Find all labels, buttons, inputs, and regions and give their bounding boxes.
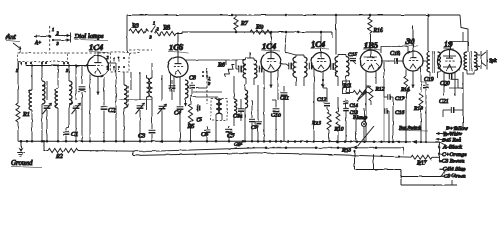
- wire x131 drop: [119, 72, 153, 100]
- tube V4 1C4: [310, 39, 331, 72]
- tube V5 1B5: [360, 40, 382, 72]
- wire R8 to screen bus: [176, 32, 182, 34]
- capacitor C4: [174, 77, 183, 141]
- capacitor C13: [343, 104, 358, 142]
- svg-text:C8: C8: [189, 76, 196, 82]
- resistor R15: [413, 68, 423, 142]
- wire C-minus line: [133, 151, 411, 158]
- svg-text:C17: C17: [395, 96, 405, 102]
- output transformer T5: [463, 32, 477, 75]
- svg-text:C2: C2: [108, 107, 115, 114]
- svg-text:C10: C10: [271, 113, 281, 119]
- speaker: [476, 50, 497, 70]
- capacitor C8-1 label: [234, 142, 243, 148]
- svg-text:3: 3: [66, 68, 68, 73]
- inductor L2: [42, 66, 45, 142]
- label R13 pointer: [341, 126, 374, 154]
- svg-text:1C4: 1C4: [89, 42, 103, 52]
- capacitor C5: [196, 104, 202, 123]
- svg-text:R1: R1: [22, 111, 30, 118]
- wire cable junction vertical: [438, 142, 440, 161]
- cable C+ Orange: [440, 152, 468, 158]
- switch wave band box: [16, 53, 69, 73]
- wire V3 pin drops: [264, 70, 278, 141]
- capacitor C7: [226, 126, 236, 141]
- wire v7 bottom drops: [444, 73, 455, 97]
- inductor L6 osc coil: [147, 63, 153, 128]
- wire screen grid bus: [182, 31, 332, 38]
- svg-text:3: 3: [107, 65, 109, 70]
- resistor R12: [357, 72, 385, 105]
- wire V1 left pin: [84, 66, 91, 143]
- resistor R6: [217, 60, 236, 92]
- svg-text:C20: C20: [440, 81, 450, 87]
- tube V7 19: [438, 39, 462, 74]
- svg-text:R12: R12: [375, 87, 385, 93]
- svg-text:R17: R17: [416, 161, 427, 167]
- resistor R13 diode load: [311, 109, 331, 142]
- svg-text:1: 1: [52, 27, 54, 32]
- svg-text:C11: C11: [280, 96, 289, 102]
- wire left vertical from bus to band switch: [126, 15, 128, 52]
- svg-text:3: 3: [150, 35, 152, 40]
- svg-text:R13: R13: [413, 106, 423, 112]
- wire V1 grid cap: [97, 52, 99, 56]
- ground symbol: [17, 140, 25, 156]
- resistor R16: [368, 15, 383, 50]
- wire B+ top bus: [127, 14, 460, 17]
- svg-text:C6: C6: [201, 131, 209, 138]
- svg-text:–C9 Green: –C9 Green: [440, 174, 466, 180]
- wire pot tail: [355, 108, 357, 142]
- capacitor C3: [138, 128, 155, 141]
- svg-text:Ground: Ground: [11, 159, 33, 167]
- label Dial lamps: [74, 33, 109, 41]
- wire drop x336: [335, 15, 337, 55]
- svg-text:3: 3: [57, 41, 59, 46]
- svg-text:C4: C4: [174, 110, 181, 117]
- resistor R7: [234, 15, 249, 32]
- resistor R17: [411, 155, 440, 166]
- svg-text:19: 19: [444, 39, 453, 49]
- svg-text:R13: R13: [341, 148, 351, 154]
- svg-text:A–Black: A–Black: [442, 145, 462, 151]
- svg-text:C3: C3: [138, 133, 145, 140]
- inductor L4: [69, 66, 72, 129]
- inductor L11 below T1: [244, 85, 248, 143]
- inductor L8: [183, 80, 188, 106]
- capacitor tuning gang 1: [43, 81, 52, 141]
- svg-text:C+Orange: C+Orange: [442, 152, 467, 158]
- svg-text:Spk: Spk: [489, 58, 497, 64]
- inductor L7 osc feedback: [169, 80, 176, 100]
- capacitor C21: [439, 99, 463, 117]
- svg-text:Dial lamps: Dial lamps: [74, 33, 105, 40]
- switch band set arm: [150, 21, 160, 40]
- capacitor C18: [381, 51, 404, 64]
- svg-text:1B5: 1B5: [364, 40, 379, 50]
- switch osc section contacts: [202, 68, 210, 104]
- wire V6 grid cap: [412, 26, 414, 51]
- svg-text:1C6: 1C6: [169, 42, 184, 52]
- wire V4 pins: [313, 69, 315, 142]
- switch section box V1 grid: [107, 52, 130, 72]
- capacitor C17: [384, 62, 405, 142]
- cable -C3 Brown: [438, 159, 465, 165]
- wire V2 pins down: [171, 75, 175, 93]
- svg-text:C15: C15: [348, 52, 358, 58]
- svg-text:1: 1: [153, 21, 155, 26]
- svg-text:30: 30: [405, 36, 415, 46]
- wire V7 grid feed: [451, 42, 469, 50]
- IF transformer T2: [282, 32, 315, 86]
- resistor R2: [43, 140, 78, 160]
- wire V1 plate drop: [109, 63, 117, 141]
- wire drop x428: [427, 15, 429, 51]
- cable B+45 Red: [436, 138, 461, 144]
- interstage transformer T4: [423, 51, 441, 78]
- label Ground: [11, 159, 42, 168]
- svg-text:R11: R11: [342, 83, 352, 89]
- svg-text:R7: R7: [240, 20, 249, 27]
- IF transformer T1: [236, 52, 263, 85]
- wire dashed gang links: [68, 50, 153, 53]
- inductor L5 RF choke: [124, 72, 128, 141]
- capacitor C11: [280, 86, 289, 142]
- svg-text:Ant: Ant: [5, 33, 17, 41]
- svg-text:C16: C16: [395, 110, 405, 116]
- wire V4 cathode: [321, 71, 324, 88]
- resistor R10: [334, 97, 344, 142]
- wire B+ bus right drop: [460, 15, 468, 32]
- svg-text:B45 Red: B45 Red: [442, 138, 461, 144]
- pilot lamp: [361, 108, 366, 142]
- svg-text:1C4: 1C4: [262, 41, 276, 51]
- capacitor C19: [421, 77, 434, 142]
- svg-text:C6a: C6a: [233, 114, 243, 120]
- svg-text:C12: C12: [317, 97, 327, 103]
- inductor L10 osc sec: [234, 92, 237, 126]
- capacitor C9: [251, 85, 261, 141]
- switch S1 A+ feed: [34, 26, 71, 51]
- capacitor C6a: [233, 99, 244, 121]
- svg-text:A+: A+: [34, 41, 41, 46]
- wire A-minus line: [78, 147, 404, 152]
- svg-text:P.lamp: P.lamp: [352, 115, 368, 121]
- cable -C4.5 Blue: [439, 166, 466, 177]
- wire V5 pins: [366, 71, 376, 142]
- capacitor C16: [384, 97, 405, 142]
- tube V2 1C6: [168, 42, 188, 77]
- cable B+ Yellow: [446, 122, 468, 132]
- svg-text:C5: C5: [196, 118, 202, 123]
- label pilot lamp: [352, 115, 368, 121]
- svg-text:R2: R2: [55, 153, 63, 160]
- wire input rail: [26, 64, 94, 66]
- svg-text:C18: C18: [390, 51, 400, 57]
- wire V3 cathode: [269, 72, 272, 88]
- svg-text:C7: C7: [227, 133, 235, 140]
- dashed osc box: [211, 99, 227, 121]
- capacitor C12: [317, 88, 330, 109]
- svg-text:R3: R3: [131, 23, 139, 30]
- svg-text:C8¹: C8¹: [234, 142, 243, 148]
- svg-text:R16: R16: [373, 28, 383, 34]
- resistor R11 volume pot: [342, 83, 369, 99]
- capacitor C15: [348, 52, 358, 64]
- tube V6 30: [403, 36, 423, 71]
- cable -C9 Green: [440, 174, 466, 186]
- wire plate shelf 1B5 to 30: [381, 47, 408, 54]
- wire lattice v 354: [353, 150, 355, 170]
- capacitor C2: [101, 77, 116, 141]
- antenna Ant: [5, 33, 21, 53]
- capacitor C8a: [249, 100, 255, 141]
- capacitor tuning gang 4: [158, 75, 167, 141]
- capacitor C8: [189, 76, 196, 98]
- svg-text:R6: R6: [217, 62, 226, 69]
- IF transformer T3: [330, 55, 349, 91]
- wire V3 grid cap: [270, 32, 272, 52]
- capacitor C14: [343, 99, 358, 109]
- svg-text:–C4½ Blue: –C4½ Blue: [439, 166, 466, 173]
- wire V1 cathode return: [96, 77, 99, 96]
- svg-text:–C3 Brown: –C3 Brown: [438, 159, 465, 165]
- svg-text:R9: R9: [255, 24, 263, 31]
- cable B- White: [436, 132, 463, 138]
- svg-text:R14: R14: [400, 87, 410, 93]
- svg-text:3: 3: [208, 81, 210, 86]
- wire step x404: [403, 148, 405, 155]
- capacitor tuning gang 3: [136, 72, 145, 141]
- cable A- Black: [442, 145, 462, 151]
- wire V2 plate to T1: [186, 59, 236, 61]
- svg-text:R13: R13: [311, 121, 321, 127]
- svg-text:R8: R8: [162, 24, 171, 31]
- capacitor tuning gang 2: [72, 66, 81, 142]
- wire ground bus: [18, 140, 447, 146]
- resistor R1: [16, 61, 30, 141]
- inductor L9 osc padder: [216, 97, 222, 141]
- svg-text:C1: C1: [71, 131, 78, 138]
- resistor R8: [155, 24, 176, 36]
- capacitor trimmer antenna: [78, 66, 86, 142]
- resistor R9: [250, 24, 272, 35]
- capacitor C6: [201, 126, 210, 141]
- wire V6 cathode: [411, 71, 414, 88]
- label Bat Switch: [399, 126, 428, 132]
- resistor R5: [187, 95, 195, 141]
- svg-text:R10: R10: [334, 127, 344, 133]
- wire v7 right return: [458, 72, 463, 128]
- svg-text:C21: C21: [439, 99, 449, 105]
- wire osc rails: [193, 88, 222, 97]
- svg-text:1C4: 1C4: [311, 39, 325, 49]
- resistor R14: [400, 70, 410, 142]
- svg-text:C14: C14: [350, 104, 359, 109]
- capacitor C20: [440, 74, 458, 89]
- tube V3 1C4: [261, 41, 281, 72]
- wire lattice v 373: [373, 154, 375, 169]
- capacitor C1: [63, 128, 79, 141]
- tube V1 1C4: [88, 42, 109, 77]
- wire lattice bottom rows: [355, 170, 458, 186]
- resistor R9 boxed choke: [343, 81, 350, 94]
- wire V4 grid cap: [320, 32, 322, 53]
- svg-text:2: 2: [107, 55, 109, 60]
- wire V2 grid cap: [177, 32, 179, 57]
- capacitor C10: [271, 100, 281, 142]
- inductor L3 with trimmer: [55, 66, 58, 142]
- resistor R3: [129, 23, 148, 34]
- inductor L1 antenna coil: [29, 66, 32, 142]
